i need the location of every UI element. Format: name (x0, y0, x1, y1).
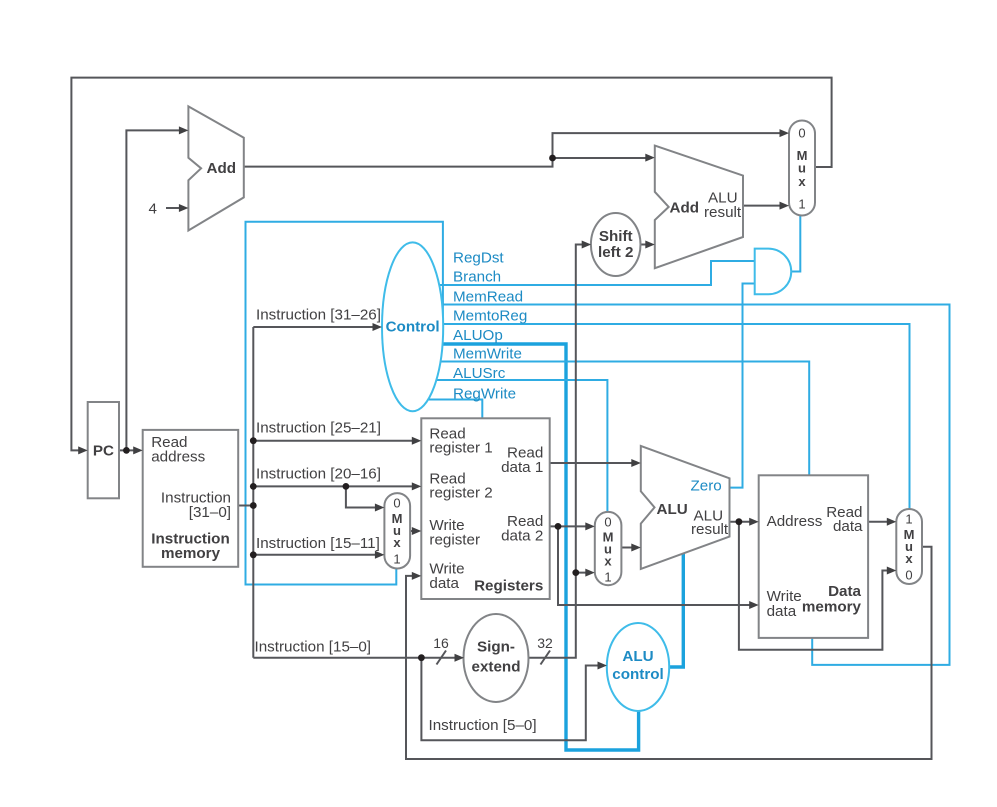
svg-text:MemtoReg: MemtoReg (453, 308, 527, 325)
svg-text:32: 32 (537, 635, 553, 651)
wire ALU result to final mux (739, 522, 894, 650)
arrowhead into ALU input 2 (631, 544, 641, 552)
svg-text:RegDst: RegDst (453, 250, 504, 267)
svg-text:extend: extend (472, 659, 521, 676)
wire ALUSrc signal (412, 380, 607, 512)
svg-text:Registers: Registers (474, 578, 543, 595)
svg-text:1: 1 (905, 512, 912, 527)
svg-text:ALUSrc: ALUSrc (453, 365, 506, 382)
wire mux output to register write data (406, 547, 932, 759)
label Zero (691, 478, 722, 495)
label MemRead (453, 289, 523, 306)
arrowhead into write data (412, 572, 422, 580)
wire ALUOp bus (412, 344, 639, 750)
label instruction 15-11 (256, 535, 380, 552)
svg-text:ALUOp: ALUOp (453, 327, 503, 344)
arrowhead into write register (412, 527, 422, 535)
svg-text:Instruction [15–11]: Instruction [15–11] (256, 535, 380, 552)
arrowhead into ALU input 1 (631, 459, 641, 467)
arrowhead into branch adder bottom (645, 241, 655, 249)
wire constant 4 to Add (166, 207, 186, 209)
mux ALUSrc (595, 512, 622, 585)
svg-text:0: 0 (798, 126, 805, 141)
svg-text:Control: Control (386, 319, 440, 336)
svg-text:result: result (704, 204, 742, 221)
svg-text:register 2: register 2 (429, 485, 492, 502)
svg-text:left 2: left 2 (598, 244, 633, 261)
label RegDst (453, 250, 504, 267)
arrowhead into read register 2 (412, 482, 422, 490)
svg-text:Instruction [25–21]: Instruction [25–21] (256, 420, 381, 437)
svg-text:0: 0 (604, 515, 611, 530)
arrowhead into read register 1 (412, 437, 422, 445)
wire instruction 20-16 (253, 485, 418, 487)
arrowhead into ALU control (598, 662, 608, 670)
arrowhead into branch adder top (645, 154, 655, 162)
junction read data 2 (555, 523, 562, 530)
wire read data 2 to ALUSrc mux (550, 525, 592, 527)
junction PC+4 line (549, 155, 556, 162)
bus width slash 16 (433, 635, 449, 665)
svg-text:Shift: Shift (599, 228, 633, 245)
wire Branch signal (412, 261, 755, 285)
svg-text:data: data (429, 575, 459, 592)
svg-text:Zero: Zero (691, 478, 722, 495)
label instruction 25-21 (256, 420, 381, 437)
wire sign extend to ALUSrc mux (576, 572, 592, 574)
wire instruction 15-11 to mux (253, 554, 381, 556)
svg-text:PC: PC (93, 443, 114, 460)
svg-text:16: 16 (433, 635, 449, 651)
arrowhead into ALUSrc mux 1 (585, 569, 595, 577)
svg-text:[31–0]: [31–0] (189, 504, 231, 521)
wire ALUSrc mux to ALU (621, 547, 638, 549)
svg-text:ALU: ALU (657, 501, 688, 518)
arrowhead into final mux 1 (887, 518, 897, 526)
wire instruction 31-26 to control (253, 326, 379, 328)
junction PC output (123, 447, 130, 454)
svg-text:data 1: data 1 (501, 459, 543, 476)
svg-text:0: 0 (905, 568, 912, 583)
instruction memory (143, 430, 239, 567)
wire instruction 20-16 to mux (346, 486, 382, 507)
wire RegWrite signal (412, 400, 482, 419)
svg-text:register: register (429, 532, 480, 549)
svg-text:memory: memory (802, 599, 862, 616)
junction ALU result (736, 518, 743, 525)
label MemtoReg (453, 308, 527, 325)
wire Zero flag (728, 284, 755, 488)
junction instruction 15-11 (250, 551, 257, 558)
arrowhead into Add bottom (179, 204, 189, 212)
label constant 4 (149, 201, 157, 218)
svg-text:0: 0 (393, 496, 400, 511)
svg-text:ALU: ALU (622, 648, 653, 665)
arrowhead into data memory write data (749, 601, 759, 609)
arrowhead into Add top (179, 126, 189, 134)
svg-text:MemRead: MemRead (453, 289, 523, 306)
junction instruction output (250, 502, 257, 509)
arrowhead into shift left 2 (582, 241, 592, 249)
wire MemRead signal (412, 305, 950, 665)
svg-text:Data: Data (828, 583, 861, 600)
shift left 2 unit (591, 213, 641, 276)
junction instruction 25-21 (250, 437, 257, 444)
wire RegDst signal (246, 222, 443, 585)
wire MemWrite signal (412, 362, 809, 476)
svg-text:x: x (393, 535, 401, 550)
svg-text:x: x (604, 554, 612, 569)
svg-text:1: 1 (604, 570, 611, 585)
wire PCSrc mux select (791, 216, 800, 272)
adder Add (PC+4) (188, 106, 243, 230)
svg-text:register 1: register 1 (429, 440, 492, 457)
arrowhead into RegDst mux 0 (375, 504, 385, 512)
junction sign extend branch (572, 569, 579, 576)
arrowhead into control (373, 323, 383, 331)
wire PC+4 to branch adder (553, 157, 653, 159)
svg-text:data 2: data 2 (501, 528, 543, 545)
wire instruction 25-21 (253, 440, 418, 442)
junction instruction 15-0 (418, 654, 425, 661)
arrowhead into PC (78, 446, 88, 454)
arrowhead into final mux 0 (887, 567, 897, 575)
data memory (759, 475, 868, 638)
label instruction 15-0 (255, 639, 372, 656)
svg-text:Instruction [20–16]: Instruction [20–16] (256, 466, 381, 483)
arrowhead into RegDst mux 1 (375, 551, 385, 559)
svg-text:1: 1 (798, 197, 805, 212)
wire RegDst mux to write register (410, 530, 418, 532)
svg-text:result: result (691, 521, 729, 538)
wire branch adder result to mux (743, 205, 786, 207)
wire sign extend to shift left 2 (529, 245, 589, 658)
svg-text:x: x (798, 174, 806, 189)
registers file (421, 418, 549, 599)
ALU control unit (607, 623, 669, 711)
mux PCSrc (789, 121, 815, 216)
AND gate (branch) (755, 249, 792, 295)
svg-text:Sign-: Sign- (477, 639, 515, 656)
wire Add output PC+4 (244, 133, 786, 167)
svg-text:4: 4 (149, 201, 157, 218)
svg-text:data: data (767, 603, 797, 620)
svg-text:address: address (151, 449, 205, 466)
label Branch (453, 269, 501, 286)
wire instruction bus (238, 327, 253, 658)
label ALUOp (453, 327, 503, 344)
svg-text:1: 1 (393, 552, 400, 567)
label ALUSrc (453, 365, 506, 382)
arrowhead into read address (133, 446, 143, 454)
adder Add ALU result (branch target) (655, 146, 743, 269)
label RegWrite (453, 386, 516, 403)
sign extend unit (464, 614, 529, 702)
svg-text:Instruction [31–26]: Instruction [31–26] (256, 307, 381, 324)
ALU (641, 446, 730, 569)
svg-text:Address: Address (767, 513, 823, 530)
mux RegDst (384, 493, 410, 568)
arrowhead into PCSrc mux 1 (780, 202, 790, 210)
control unit (382, 242, 443, 411)
wire instruction 15-0 to sign extend (253, 657, 461, 659)
wire ALU control output (655, 552, 683, 667)
svg-text:x: x (905, 551, 913, 566)
bus width slash 32 (537, 635, 553, 665)
label instruction 20-16 (256, 466, 381, 483)
wire read data 2 to data memory write data (558, 526, 756, 605)
wire data memory read data to mux (868, 521, 893, 523)
label instruction 5-0 (429, 717, 537, 734)
arrowhead into sign extend (455, 654, 465, 662)
svg-text:memory: memory (161, 545, 221, 562)
wire PC feedback loop (71, 78, 831, 451)
label instruction 31-26 (256, 307, 381, 324)
wire instruction 5-0 to ALU control (421, 658, 604, 741)
svg-text:data: data (833, 518, 863, 535)
mux MemtoReg (896, 509, 922, 584)
PC register (88, 402, 119, 498)
label MemWrite (453, 346, 522, 363)
wire read data 1 to ALU (550, 462, 638, 464)
wire ALU result to data memory (730, 521, 757, 523)
svg-text:Add: Add (670, 200, 700, 217)
junction instruction 20-16 (250, 483, 257, 490)
wire PC to Add (126, 130, 185, 450)
svg-text:control: control (612, 666, 663, 683)
arrowhead into PCSrc mux 0 (780, 129, 790, 137)
svg-text:MemWrite: MemWrite (453, 346, 522, 363)
svg-text:Add: Add (207, 160, 237, 177)
arrowhead into data memory address (749, 518, 759, 526)
wire MemtoReg signal (412, 324, 910, 509)
wire shift left 2 to branch adder (641, 244, 653, 246)
svg-text:Branch: Branch (453, 269, 501, 286)
arrowhead into ALUSrc mux 0 (585, 522, 595, 530)
svg-text:RegWrite: RegWrite (453, 386, 516, 403)
svg-text:Instruction [5–0]: Instruction [5–0] (429, 717, 537, 734)
svg-text:Instruction [15–0]: Instruction [15–0] (255, 639, 372, 656)
wire PC to instruction memory (119, 449, 140, 451)
junction register 2 branch (343, 483, 350, 490)
